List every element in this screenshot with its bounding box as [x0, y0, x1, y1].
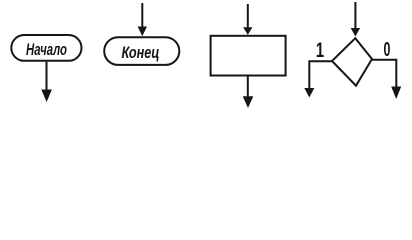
svg-text:0: 0 [384, 38, 391, 61]
wire into process box [247, 4, 249, 29]
arrowhead false branch [391, 87, 401, 100]
arrowhead into Конец [138, 27, 147, 37]
decision diamond [332, 38, 372, 85]
wire into Конец [141, 3, 143, 30]
wire false branch right [372, 60, 396, 89]
wire true branch left [309, 61, 332, 91]
arrowhead below process box [243, 96, 254, 108]
terminator Конец [104, 37, 179, 65]
arrowhead into decision diamond [351, 28, 360, 37]
svg-text:1: 1 [316, 37, 324, 61]
terminator Начало [11, 35, 81, 61]
wire out of process box [247, 76, 249, 100]
process box [211, 36, 286, 76]
arrowhead below Начало [41, 90, 52, 103]
wire from Начало [46, 62, 48, 96]
arrowhead true branch [304, 88, 314, 98]
arrowhead into process box [243, 27, 252, 35]
svg-text:Начало: Начало [26, 40, 67, 59]
svg-text:Конец: Конец [122, 43, 160, 62]
wire into decision diamond [354, 2, 356, 30]
